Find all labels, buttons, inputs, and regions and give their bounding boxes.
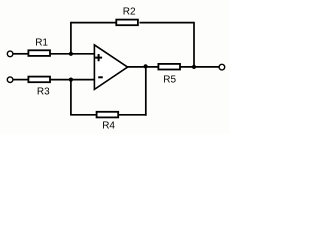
resistor R2: [116, 7, 138, 26]
node: junction op-amp output: [144, 64, 148, 68]
resistor R5: [158, 64, 180, 85]
node: junction - input: [69, 78, 73, 82]
wire: output row (op-amp to R5 to terminal): [127, 66, 219, 68]
wire: top feedback horizontal (node + to R2 to output node): [71, 22, 194, 24]
svg-text:R1: R1: [35, 38, 48, 49]
wire: vertical from - input node down to R4 row: [70, 80, 72, 115]
resistor R1: [28, 38, 50, 56]
wire: vertical from output node down to R4 row: [145, 67, 147, 116]
svg-text:R4: R4: [102, 121, 115, 132]
svg-text:R3: R3: [37, 87, 50, 98]
wire: vertical from + input node up to feedback: [70, 22, 72, 54]
terminal input 1: [7, 51, 13, 57]
resistor R4: [97, 112, 119, 132]
svg-text:R5: R5: [163, 74, 176, 85]
wire: top input row (terminal to R1 to op-amp +): [13, 53, 94, 55]
terminal output: [219, 64, 225, 70]
resistor R3: [28, 77, 50, 98]
terminal input 2: [7, 77, 13, 83]
svg-text:R2: R2: [123, 7, 136, 18]
wire: right vertical from feedback down to output node: [193, 22, 195, 67]
wire: bottom feedback row through R4: [70, 114, 147, 116]
wire: bottom input row (terminal to R3 to op-amp -): [13, 79, 94, 81]
node: junction R5 output: [192, 65, 196, 69]
node: junction + input: [69, 52, 73, 56]
op-amp U1: [94, 45, 127, 90]
